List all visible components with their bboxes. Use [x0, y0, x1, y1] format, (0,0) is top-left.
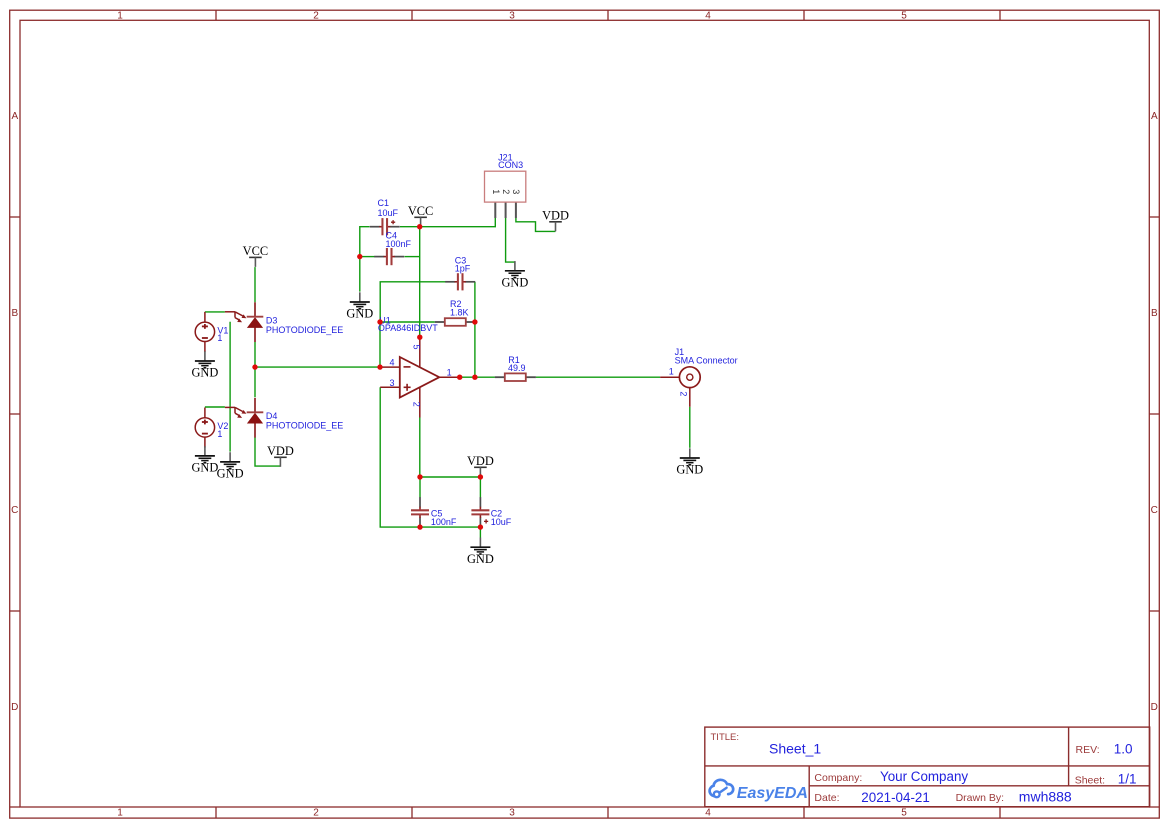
junction node R2 left	[377, 319, 382, 324]
svg-text:Date:: Date:	[814, 792, 839, 804]
wire C5 top	[419, 477, 421, 498]
VDD flag above C2	[474, 467, 487, 477]
wire node to op-amp pin 4	[255, 366, 380, 368]
svg-text:2: 2	[412, 402, 422, 407]
svg-text:3: 3	[511, 189, 521, 194]
svg-text:100nF: 100nF	[386, 239, 412, 249]
svg-text:2: 2	[501, 189, 511, 194]
svg-text:1: 1	[117, 807, 123, 818]
svg-text:1: 1	[447, 368, 452, 378]
svg-text:TITLE:: TITLE:	[711, 732, 740, 743]
VCC flag above D3	[249, 257, 262, 267]
junction at VCC node	[417, 224, 422, 229]
wire C1 left to GND	[360, 227, 370, 292]
junction node R2 right	[472, 319, 477, 324]
svg-text:1: 1	[669, 367, 674, 377]
EasyEDA logo	[710, 780, 808, 802]
junction at output feedback branch	[472, 375, 477, 380]
svg-text:REV:: REV:	[1076, 744, 1100, 756]
ground under C1 left	[346, 292, 373, 320]
svg-text:Sheet:: Sheet:	[1075, 774, 1105, 786]
svg-text:VDD: VDD	[267, 444, 294, 458]
svg-text:PHOTODIODE_EE: PHOTODIODE_EE	[266, 421, 343, 431]
svg-text:49.9: 49.9	[508, 363, 526, 373]
connector J21 CON3	[485, 171, 526, 218]
capacitor C1	[370, 218, 400, 235]
svg-text:3: 3	[389, 378, 394, 388]
svg-text:2021-04-21: 2021-04-21	[861, 790, 930, 805]
svg-text:VDD: VDD	[542, 208, 569, 222]
ground under V2	[191, 446, 218, 474]
svg-text:VDD: VDD	[467, 454, 494, 468]
junction at C5 bottom	[417, 524, 422, 529]
voltage source V2	[195, 408, 214, 448]
wire op-amp pin 3 to ground rail	[380, 387, 420, 527]
wire C2 bottom to GND	[479, 527, 481, 537]
photodiode D3	[225, 302, 263, 342]
svg-text:CON3: CON3	[498, 160, 523, 170]
svg-text:B: B	[11, 308, 18, 319]
svg-text:5: 5	[901, 11, 907, 22]
svg-text:5: 5	[412, 345, 422, 350]
voltage source V1	[195, 312, 214, 352]
svg-text:3: 3	[509, 807, 515, 818]
wire C1 right to VCC node	[400, 226, 420, 228]
svg-text:4: 4	[705, 11, 711, 22]
wire R1 to J1	[536, 376, 660, 378]
ground under J1	[676, 448, 703, 476]
svg-text:1.8K: 1.8K	[450, 307, 469, 317]
svg-text:C1: C1	[378, 198, 390, 208]
junction at op-amp pin 4	[377, 364, 382, 369]
svg-text:VCC: VCC	[408, 204, 433, 218]
svg-text:Sheet_1: Sheet_1	[769, 741, 821, 757]
svg-text:4: 4	[389, 358, 394, 368]
svg-text:EasyEDA: EasyEDA	[737, 785, 808, 802]
wire output to R1	[460, 376, 495, 378]
svg-text:D3: D3	[266, 316, 278, 326]
svg-text:C: C	[11, 505, 18, 516]
svg-text:D: D	[11, 702, 18, 713]
VDD flag right of D4	[274, 457, 287, 467]
wire C4 left	[360, 256, 375, 258]
svg-text:OPA846IDBVT: OPA846IDBVT	[378, 323, 438, 333]
junction at C4 left / GND branch	[357, 254, 362, 259]
svg-text:1.0: 1.0	[1114, 741, 1133, 756]
svg-text:2: 2	[678, 391, 688, 396]
wire op-amp pin 2 down	[419, 418, 421, 478]
wire V2 to D4	[205, 406, 225, 408]
svg-text:SMA Connector: SMA Connector	[675, 356, 738, 366]
wire V1 to D3	[205, 311, 225, 313]
svg-text:mwh888: mwh888	[1019, 789, 1072, 805]
wire R2 left to pin 4 node	[379, 322, 381, 367]
svg-text:Company:: Company:	[814, 772, 862, 784]
svg-text:C: C	[1151, 505, 1158, 516]
svg-text:1: 1	[217, 333, 222, 343]
wire VCC rail to J21 pin 1	[420, 218, 496, 227]
wire VCC to D3	[254, 267, 256, 302]
svg-text:A: A	[1151, 111, 1158, 122]
ground under V1	[191, 351, 218, 379]
ground mid	[217, 452, 244, 480]
junction at C5 top	[417, 474, 422, 479]
capacitor C5	[411, 497, 429, 527]
svg-text:D: D	[1151, 702, 1158, 713]
VDD flag near J21	[549, 222, 562, 232]
junction at C2 bottom / GND	[478, 524, 483, 529]
wire C3 right to R2 right	[474, 282, 476, 322]
svg-text:2: 2	[313, 807, 319, 818]
wire R2 left link	[380, 321, 435, 323]
svg-text:A: A	[11, 111, 18, 122]
svg-text:VCC: VCC	[243, 244, 268, 258]
capacitor C4	[374, 248, 404, 265]
ground under C2	[467, 538, 494, 566]
svg-text:1pF: 1pF	[455, 264, 471, 274]
svg-text:2: 2	[313, 11, 319, 22]
resistor R2	[435, 318, 476, 326]
svg-text:1: 1	[217, 429, 222, 439]
junction at C2 top / VDD	[478, 474, 483, 479]
photodiode D4	[225, 398, 263, 438]
wire J1 pin 2 to GND	[689, 407, 691, 448]
wire D4 to VDD	[255, 437, 280, 466]
capacitor C3	[445, 273, 475, 290]
svg-text:3: 3	[509, 11, 515, 22]
svg-text:B: B	[1151, 308, 1158, 319]
svg-text:PHOTODIODE_EE: PHOTODIODE_EE	[266, 325, 343, 335]
wire C2 top	[479, 477, 481, 498]
svg-text:100nF: 100nF	[431, 517, 457, 527]
op-amp U1	[380, 337, 460, 417]
ground under J21 pin 2	[501, 261, 528, 289]
wire bottom rail C5 to C2	[420, 526, 480, 528]
svg-text:1: 1	[117, 11, 123, 22]
svg-text:1/1: 1/1	[1118, 771, 1137, 786]
wire mid to GND	[229, 322, 231, 452]
svg-text:Your Company: Your Company	[880, 769, 968, 784]
svg-text:10uF: 10uF	[491, 517, 512, 527]
svg-text:Drawn By:: Drawn By:	[956, 792, 1004, 804]
wire J21 pin 2 to GND	[506, 218, 515, 262]
wire J21 pin 3 to VDD	[516, 218, 556, 231]
CIRCUIT	[191, 153, 737, 566]
wire VDD row	[420, 476, 481, 478]
svg-text:4: 4	[705, 807, 711, 818]
junction at op-amp output	[457, 375, 462, 380]
wire C4 right to vertical	[405, 256, 420, 258]
resistor R1	[495, 373, 536, 381]
capacitor C2	[471, 497, 489, 527]
wire R2 right to output node	[474, 322, 476, 377]
svg-text:10uF: 10uF	[378, 208, 399, 218]
svg-text:5: 5	[901, 807, 907, 818]
svg-text:1: 1	[491, 189, 501, 194]
junction at op-amp pin 5	[417, 335, 422, 340]
wire feedback horizontal to C3	[380, 282, 450, 322]
TITLE BLOCK	[705, 727, 1150, 807]
wire D3 to D4	[254, 342, 256, 397]
SMA connector J1	[660, 367, 700, 407]
junction node D3-D4	[252, 364, 257, 369]
wire VCC vertical to op-amp pin 5	[419, 227, 421, 338]
VCC flag at C1 node	[414, 217, 427, 227]
svg-text:D4: D4	[266, 411, 278, 421]
